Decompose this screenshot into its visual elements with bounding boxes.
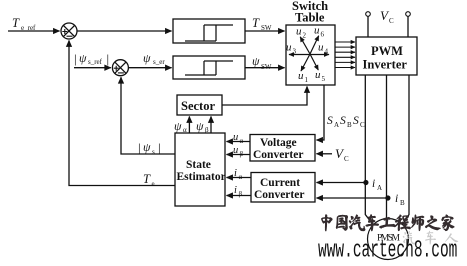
- svg-text:4: 4: [325, 48, 329, 56]
- svg-text:e: e: [152, 180, 155, 188]
- summing junction S2 (flux error): [112, 60, 128, 76]
- flux hysteresis comparator block: [173, 56, 245, 79]
- svg-text:β: β: [205, 126, 209, 134]
- svg-text:u: u: [318, 42, 324, 54]
- DC supply terminal right: [406, 12, 411, 17]
- svg-text:ψ: ψ: [143, 51, 151, 65]
- current sensor node phase A: [363, 180, 368, 185]
- wire u_alpha voltage converter to state estimator: [227, 141, 251, 143]
- svg-text:T: T: [252, 16, 260, 30]
- svg-text:β: β: [240, 150, 244, 158]
- svg-text:S: S: [327, 115, 333, 127]
- svg-text:|: |: [74, 51, 77, 66]
- svg-text:s: s: [152, 148, 155, 156]
- wire S_ABC from switch table to voltage converter: [317, 85, 325, 140]
- voltage converter block: [250, 135, 315, 162]
- svg-text:3: 3: [293, 48, 297, 56]
- svg-text:6: 6: [321, 31, 325, 39]
- svg-text:B: B: [347, 121, 352, 129]
- wire i_A to current converter: [317, 182, 366, 184]
- svg-text:SW: SW: [261, 24, 272, 32]
- svg-text:β: β: [239, 190, 243, 198]
- wire S1 to torque hysteresis: [77, 30, 172, 32]
- current converter block: [251, 173, 315, 203]
- plus sign at S1 input: [62, 29, 67, 34]
- svg-text:Converter: Converter: [254, 189, 304, 201]
- watermark chinese line: [321, 215, 454, 231]
- svg-text:S: S: [353, 115, 359, 127]
- svg-text:PWM: PWM: [371, 44, 403, 58]
- state estimator block: [175, 133, 225, 206]
- svg-text:C: C: [389, 17, 394, 25]
- minus sign at S1 bottom: [67, 35, 73, 37]
- wire psi_alpha state estimator to sector: [188, 117, 190, 134]
- svg-text:u: u: [315, 69, 321, 81]
- svg-text:i: i: [395, 193, 398, 205]
- svg-text:u: u: [298, 70, 304, 82]
- svg-text:u: u: [233, 132, 238, 143]
- PMSM motor circle: [368, 219, 409, 260]
- svg-text:ψ: ψ: [252, 54, 260, 68]
- svg-text:|: |: [107, 51, 110, 66]
- svg-text:u: u: [314, 25, 320, 37]
- flux hysteresis symbol: [185, 61, 233, 75]
- wire DC terminal left to inverter: [367, 16, 369, 37]
- switch table block: [286, 25, 335, 85]
- svg-text:Inverter: Inverter: [363, 58, 408, 72]
- switch table vector star: [289, 36, 329, 71]
- svg-text:Voltage: Voltage: [260, 137, 297, 149]
- svg-text:u: u: [233, 145, 238, 156]
- wire phase C down from inverter: [402, 75, 409, 225]
- svg-text:5: 5: [322, 75, 326, 83]
- PWM inverter block: [356, 37, 417, 75]
- wire T_e_ref input into torque summing junction: [8, 30, 60, 32]
- svg-text:u: u: [286, 42, 292, 54]
- svg-text:ψ: ψ: [174, 119, 182, 133]
- svg-text:α: α: [239, 173, 243, 181]
- wires switch table to PWM inverter (6 gate signals): [335, 42, 355, 68]
- wire flux hysteresis to switch table: [245, 67, 285, 69]
- wire S2 to flux hysteresis: [128, 67, 171, 69]
- svg-text:α: α: [183, 126, 187, 134]
- svg-text:ψ: ψ: [196, 119, 204, 133]
- current sensor node phase B: [385, 195, 390, 200]
- torque hysteresis symbol: [185, 25, 233, 41]
- summing junction S1 (torque error): [61, 23, 77, 39]
- wire flux ref input into flux summing junction: [74, 67, 111, 69]
- minus sign at S2 bottom: [118, 72, 124, 74]
- wire u_beta voltage converter to state estimator: [227, 154, 251, 156]
- svg-text:State: State: [186, 159, 211, 171]
- wire psi_beta state estimator to sector: [210, 117, 212, 134]
- svg-text:Estimator: Estimator: [177, 171, 226, 183]
- svg-text:ψ: ψ: [143, 140, 151, 154]
- svg-text:B: B: [400, 199, 405, 207]
- wire torque hysteresis to switch table: [245, 30, 285, 32]
- svg-text:2: 2: [303, 32, 307, 40]
- wire phase B down from inverter: [386, 75, 388, 219]
- svg-text:ψ: ψ: [79, 51, 87, 65]
- wire i_alpha current converter to state estimator: [227, 177, 252, 179]
- svg-text:α: α: [240, 137, 244, 145]
- svg-text:1: 1: [305, 76, 309, 84]
- svg-text:Table: Table: [295, 11, 325, 25]
- svg-text:Sector: Sector: [181, 99, 215, 113]
- wire i_beta current converter to state estimator: [227, 195, 252, 197]
- svg-text:A: A: [377, 184, 382, 192]
- torque hysteresis comparator block: [173, 19, 245, 43]
- svg-text:s_ref: s_ref: [88, 58, 103, 66]
- wire torque feedback to S1: [69, 41, 175, 186]
- svg-text:T: T: [12, 16, 20, 30]
- wire flux feedback to S2: [121, 77, 175, 154]
- wire V_C input to voltage converter: [317, 153, 333, 155]
- svg-text:|: |: [158, 140, 161, 155]
- watermark ghost chinese: [403, 231, 458, 245]
- svg-text:T: T: [143, 172, 151, 186]
- svg-text:Converter: Converter: [253, 149, 303, 161]
- svg-text:e_ref: e_ref: [21, 24, 36, 32]
- svg-text:SW: SW: [261, 63, 272, 71]
- svg-text:s_er: s_er: [153, 58, 165, 66]
- plus sign at S2 input: [114, 66, 119, 71]
- svg-text:Current: Current: [260, 177, 300, 189]
- wire i_B to current converter: [317, 197, 388, 199]
- wire phase A down from inverter: [365, 75, 373, 225]
- svg-text:i: i: [372, 178, 375, 190]
- svg-text:C: C: [360, 121, 365, 129]
- wire sector to switch table: [222, 87, 307, 106]
- wire DC terminal right to inverter: [407, 16, 409, 37]
- sector block: [177, 95, 222, 115]
- svg-text:S: S: [340, 115, 346, 127]
- svg-text:C: C: [344, 155, 349, 163]
- DC supply terminal left: [366, 12, 371, 17]
- svg-text:www.cartech8.com: www.cartech8.com: [318, 236, 457, 264]
- svg-text:A: A: [334, 121, 339, 129]
- svg-text:u: u: [296, 26, 302, 38]
- svg-text:i: i: [234, 168, 237, 179]
- svg-text:|: |: [138, 140, 141, 155]
- svg-text:i: i: [234, 185, 237, 196]
